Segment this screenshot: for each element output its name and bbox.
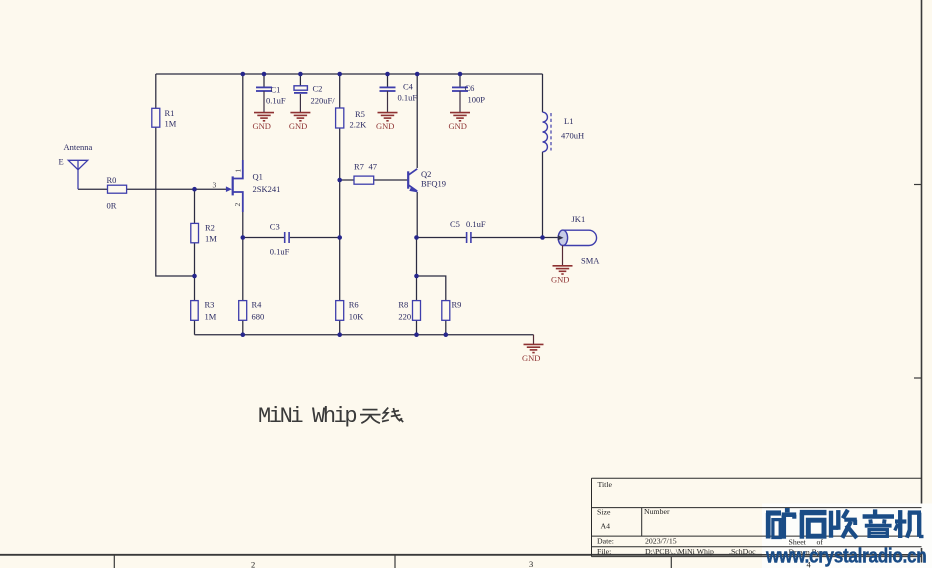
- svg-text:L1: L1: [564, 116, 573, 126]
- wire R2 bottom to R3 top: [194, 243, 196, 301]
- svg-text:C2: C2: [313, 84, 323, 94]
- ground below C1: [253, 91, 275, 131]
- svg-text:10K: 10K: [349, 312, 365, 322]
- svg-text:2SK241: 2SK241: [253, 184, 281, 194]
- svg-text:2: 2: [233, 203, 242, 207]
- svg-text:C6: C6: [465, 83, 475, 93]
- wire R7 node to R7 left: [340, 179, 354, 181]
- wire R1 bottom to mid junction: [156, 127, 195, 276]
- capacitor C2 polarized: [294, 86, 307, 93]
- svg-text:R7: R7: [354, 162, 364, 172]
- svg-text:GND: GND: [551, 274, 569, 284]
- svg-text:0.1uF: 0.1uF: [398, 93, 418, 103]
- wire top rail left drop to R1: [155, 74, 157, 108]
- logo white backing: [762, 504, 932, 568]
- wire R0 to Q1 gate: [127, 188, 227, 190]
- wire R8 bottom: [416, 320, 418, 334]
- antenna E: [68, 160, 87, 189]
- TITLEBLOCK: [592, 478, 922, 556]
- svg-text:GND: GND: [376, 121, 394, 131]
- svg-text:SMA: SMA: [581, 256, 600, 266]
- wire C1 drop from rail: [263, 74, 265, 87]
- svg-text:GND: GND: [253, 121, 271, 131]
- svg-text:Q2: Q2: [421, 169, 431, 179]
- Q1 gate arrow: [226, 186, 232, 192]
- titleblock line below Date row: [592, 546, 922, 548]
- svg-text:R5: R5: [355, 109, 365, 119]
- junction mid R1-R2-R3: [192, 274, 197, 279]
- titleblock left border: [591, 478, 593, 556]
- svg-text:R6: R6: [349, 300, 359, 310]
- junction bottom rail R6: [337, 332, 342, 337]
- wire top rail: [156, 73, 543, 75]
- junction top rail Q2 collector: [415, 72, 420, 77]
- wire R8 column lower: [416, 276, 418, 301]
- svg-text:C3: C3: [270, 222, 280, 232]
- wire R5 bottom to R7 node: [339, 128, 341, 180]
- svg-text:220uF/: 220uF/: [311, 95, 336, 105]
- resistor R0: [108, 185, 127, 193]
- junction top rail C1: [262, 72, 267, 77]
- resistor R4: [239, 301, 247, 321]
- inductor L1: [543, 112, 552, 152]
- ground below C6: [449, 91, 471, 131]
- bottom zone tick 1: [113, 555, 115, 568]
- right border zone tick upper: [914, 184, 922, 186]
- svg-text:47: 47: [369, 162, 378, 172]
- transistor Q2 BFQ19: [408, 169, 417, 191]
- svg-text:0.1uF: 0.1uF: [466, 219, 486, 229]
- wire antenna to R0: [78, 188, 108, 190]
- svg-text:2.2K: 2.2K: [350, 120, 368, 130]
- svg-text:Size: Size: [597, 508, 611, 517]
- svg-text:R2: R2: [205, 223, 215, 233]
- svg-text:R1: R1: [165, 108, 175, 118]
- LOGO: [762, 504, 932, 568]
- junction C5 row L1: [540, 235, 545, 240]
- wire C4 drop from rail: [387, 74, 389, 87]
- sheet bottom border: [0, 554, 922, 556]
- CAPTION: [258, 404, 403, 429]
- Q2 emitter arrow: [409, 186, 418, 192]
- junction top rail C6: [458, 72, 463, 77]
- svg-text:C5: C5: [450, 219, 460, 229]
- logo glyph yin: [863, 509, 894, 536]
- svg-text:1M: 1M: [165, 119, 177, 129]
- junction top rail C4: [385, 72, 390, 77]
- svg-text:R8: R8: [398, 300, 408, 310]
- svg-text:0.1uF: 0.1uF: [266, 95, 286, 105]
- junction R8-R9 branch: [414, 274, 419, 279]
- junction top rail Q1 drain: [241, 72, 246, 77]
- junction R7 node: [337, 178, 342, 183]
- svg-text:R4: R4: [252, 300, 263, 310]
- logo glyph shou: [831, 510, 857, 538]
- bottom zone tick 3: [670, 557, 672, 568]
- svg-text:C4: C4: [403, 82, 414, 92]
- JK1 wire arrow: [558, 235, 564, 240]
- capacitor C3: [285, 232, 289, 243]
- titleblock divider Size/Number: [641, 508, 643, 536]
- svg-text:Title: Title: [598, 480, 613, 489]
- junction bottom rail R4: [241, 332, 246, 337]
- junction C3 row Q1 source: [241, 235, 246, 240]
- titleblock bottom line: [592, 556, 922, 558]
- svg-text:www.crystalradio.cn: www.crystalradio.cn: [765, 545, 926, 568]
- svg-text:.SchDoc: .SchDoc: [729, 547, 756, 556]
- svg-text:3: 3: [529, 559, 533, 568]
- junction bottom rail R8: [414, 332, 419, 337]
- resistor R5: [336, 108, 344, 128]
- wire L1 bottom to C5 node: [542, 152, 544, 238]
- resistor R2: [191, 223, 199, 242]
- resistor R3: [191, 301, 199, 321]
- logo glyph shi: [800, 513, 827, 539]
- svg-text:MiNi Whip: MiNi Whip: [258, 404, 356, 429]
- svg-text:100P: 100P: [468, 95, 486, 105]
- wire C5 row left segment: [417, 237, 466, 239]
- wire R6 bottom: [339, 320, 341, 334]
- capacitor C5: [467, 232, 471, 243]
- capacitor C1: [256, 87, 272, 91]
- junction top rail R5: [337, 72, 342, 77]
- wire R4 bottom: [242, 320, 244, 334]
- svg-text:1: 1: [234, 169, 243, 173]
- titleblock line below Title row: [592, 507, 922, 509]
- svg-text:GND: GND: [522, 353, 540, 363]
- svg-text:0.1uF: 0.1uF: [270, 247, 290, 257]
- border corner redraw vertical: [921, 548, 923, 563]
- logo glyph ji: [895, 510, 924, 538]
- svg-text:E: E: [59, 157, 64, 167]
- svg-text:2: 2: [251, 560, 255, 568]
- wire bottom rail: [195, 334, 534, 336]
- ground below JK1: [551, 246, 573, 285]
- wire C6 drop from rail: [459, 74, 461, 87]
- titleblock line over logo 4: [762, 556, 922, 558]
- caption glyph tian: [360, 410, 381, 424]
- ground below C2: [289, 94, 311, 131]
- wire R4 column: [242, 238, 244, 301]
- svg-text:R3: R3: [205, 300, 215, 310]
- svg-text:C1: C1: [271, 85, 281, 95]
- junction C5 row R8: [414, 235, 419, 240]
- transistor Q1 2SK241: [233, 160, 243, 212]
- wire C5 node to JK1: [543, 237, 559, 239]
- junction gate row R2: [192, 187, 197, 192]
- wire C3 node down to R6: [339, 238, 341, 301]
- wire branch to R9: [417, 276, 446, 301]
- svg-text:JK1: JK1: [572, 214, 586, 224]
- wire Q2 collector to top rail: [416, 74, 418, 168]
- resistor R9: [442, 301, 450, 321]
- wire R8 column upper: [416, 238, 418, 277]
- wire C3 row right segment: [290, 237, 340, 239]
- wire R7 right to Q2 base: [374, 179, 408, 181]
- svg-text:220: 220: [398, 312, 411, 322]
- junction C3 row R6: [337, 235, 342, 240]
- svg-text:GND: GND: [289, 121, 307, 131]
- capacitor C4: [380, 87, 396, 91]
- resistor R6: [336, 301, 344, 321]
- svg-text:R0: R0: [107, 175, 117, 185]
- ground below C4: [376, 91, 398, 131]
- svg-text:Antenna: Antenna: [64, 142, 93, 152]
- svg-text:GND: GND: [449, 121, 467, 131]
- capacitor C6: [452, 87, 468, 91]
- wire C2 drop from rail: [299, 74, 301, 86]
- svg-text:A4: A4: [601, 522, 611, 531]
- ground at bottom rail: [522, 335, 544, 363]
- resistor R1: [152, 108, 160, 127]
- svg-text:Date:: Date:: [597, 537, 614, 546]
- wire Q1 drain to top rail: [242, 74, 244, 160]
- wire R9 bottom: [445, 320, 447, 334]
- titleblock line below Size row: [592, 535, 922, 537]
- junction top rail C2: [298, 72, 303, 77]
- svg-text:Number: Number: [644, 507, 670, 516]
- wire C5 row right segment: [472, 237, 543, 239]
- caption glyph xian: [382, 408, 403, 422]
- sheet right border: [921, 0, 923, 568]
- resistor R8: [413, 301, 421, 321]
- svg-text:3: 3: [213, 181, 217, 190]
- svg-text:0R: 0R: [107, 201, 117, 211]
- wire R2 top drop: [194, 189, 196, 223]
- titleblock top line: [592, 477, 922, 479]
- svg-text:File:: File:: [597, 547, 611, 556]
- svg-text:R9: R9: [452, 300, 462, 310]
- bottom zone tick 2: [394, 555, 396, 568]
- resistor R7: [354, 176, 374, 184]
- svg-text:1M: 1M: [205, 312, 217, 322]
- svg-text:BFQ19: BFQ19: [421, 179, 446, 189]
- svg-text:2023/7/15: 2023/7/15: [645, 537, 677, 546]
- wire top rail right drop to L1: [542, 74, 544, 112]
- svg-text:D:\PCB\..\MiNi Whip: D:\PCB\..\MiNi Whip: [645, 547, 714, 556]
- titleblock divider Sheet column: [785, 536, 787, 557]
- svg-text:Q1: Q1: [253, 172, 263, 182]
- titleblock line over logo 3: [762, 546, 922, 548]
- wire Q1 source down to C3 row: [242, 212, 244, 238]
- wire R7 node down to C3 node: [339, 180, 341, 238]
- right border zone tick lower: [914, 377, 922, 379]
- svg-text:680: 680: [252, 312, 265, 322]
- wire Q2 emitter down to C5 row: [416, 192, 418, 238]
- border bottom redraw: [762, 554, 922, 556]
- wire C3 row left segment: [243, 237, 284, 239]
- junction bottom rail R9: [444, 332, 449, 337]
- titleblock line over logo 1: [762, 507, 922, 509]
- logo glyph kuang: [766, 510, 796, 539]
- wire R3 bottom to bottom rail: [194, 320, 196, 334]
- titleblock line over logo 2: [762, 535, 922, 537]
- wire R5 drop from rail: [339, 74, 341, 108]
- connector JK1 SMA: [558, 230, 596, 245]
- svg-text:470uH: 470uH: [561, 131, 584, 141]
- svg-text:1M: 1M: [205, 234, 217, 244]
